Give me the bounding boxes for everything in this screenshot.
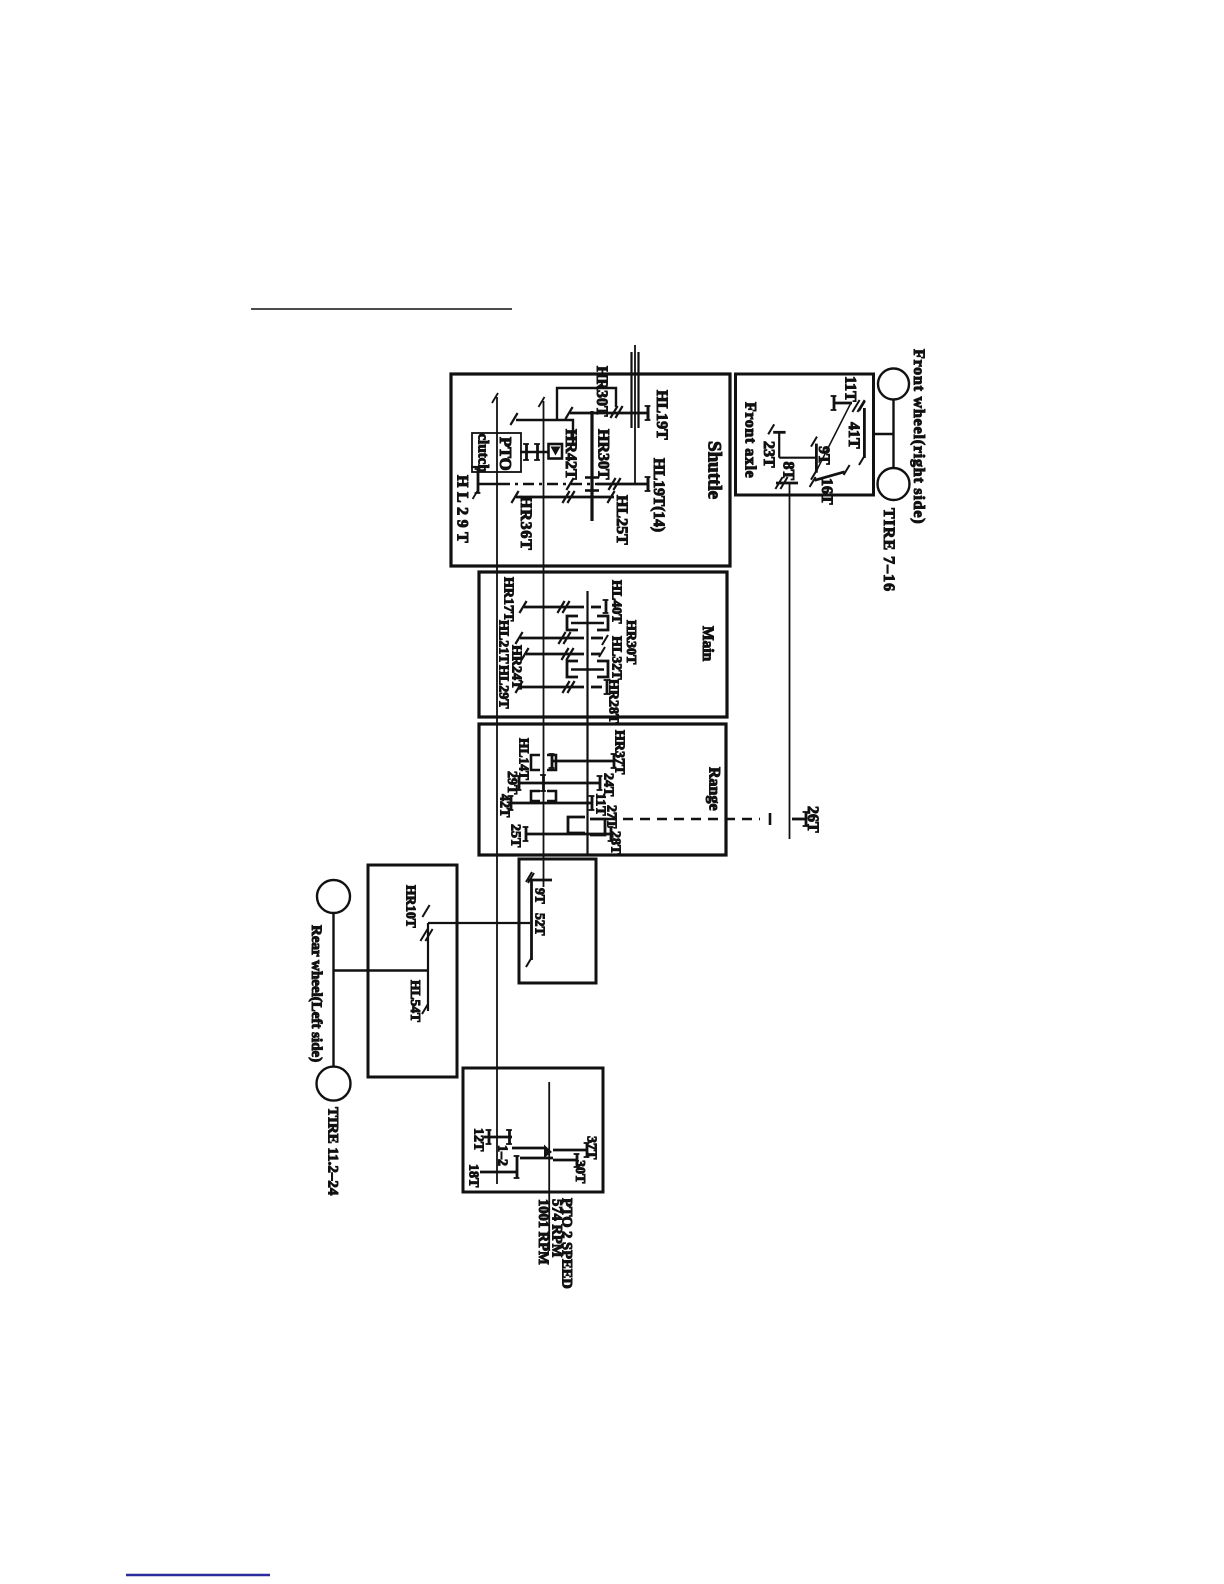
collar pair RC-RE on S4 bbox=[568, 817, 585, 833]
header rule bbox=[251, 308, 512, 310]
svg-text:HR30T: HR30T bbox=[623, 620, 638, 665]
svg-text:12T: 12T bbox=[471, 1128, 486, 1152]
gear row RC 42T/11T bbox=[511, 802, 592, 805]
svg-text:9T: 9T bbox=[533, 888, 548, 904]
shuttle synchro bracket bbox=[516, 420, 573, 444]
shaft S1 (PTO through-shaft) bbox=[496, 397, 498, 1184]
svg-text:52T: 52T bbox=[533, 913, 548, 936]
svg-text:HR30T: HR30T bbox=[593, 366, 610, 417]
synchro hub line bbox=[520, 451, 549, 453]
box front axle bbox=[736, 374, 874, 495]
gear 11T bar bbox=[834, 402, 852, 405]
box Shuttle bbox=[451, 374, 730, 566]
gear row RE 25T/28T bbox=[526, 833, 611, 836]
gear row RB 29T/24T bbox=[519, 782, 600, 785]
box Range bbox=[479, 724, 726, 855]
svg-text:Shuttle: Shuttle bbox=[704, 441, 725, 499]
gear 9T on S2 end bbox=[528, 879, 552, 882]
gear 18T bar bbox=[480, 1171, 517, 1174]
gear 8T with mesh marks bbox=[776, 482, 798, 485]
svg-text:29T: 29T bbox=[504, 771, 519, 795]
bracket HR30T idler link bbox=[557, 388, 616, 420]
gear 41T bbox=[863, 408, 866, 458]
footer rule (navy) bbox=[126, 1574, 270, 1577]
svg-text:Main: Main bbox=[699, 626, 716, 662]
gear 16T bar bbox=[815, 472, 845, 481]
svg-text:18T: 18T bbox=[466, 1164, 481, 1188]
collar on S2 row RA bbox=[531, 755, 540, 770]
mesh tick on dashed line bbox=[769, 813, 772, 825]
svg-text:16T: 16T bbox=[818, 478, 835, 505]
bevel shaft diagonal bbox=[816, 404, 851, 473]
svg-text:HL19T: HL19T bbox=[653, 390, 670, 440]
collar on S2 row RB-RC bbox=[531, 791, 540, 801]
gear 52T bbox=[530, 879, 533, 960]
PTO axis dash-dot line bbox=[478, 483, 499, 486]
gear HL19T(14) end serif bbox=[647, 477, 650, 491]
gear HL29T on PTO axis bbox=[471, 466, 478, 468]
gear 26T bbox=[792, 818, 806, 821]
gear 9T (front) bbox=[815, 444, 818, 473]
collar pair M3-M4 bbox=[567, 661, 578, 677]
PTO clutch box bbox=[472, 433, 521, 472]
front wheel circle (top) bbox=[878, 369, 909, 400]
svg-text:HL40T: HL40T bbox=[609, 580, 624, 624]
svg-text:Front wheel(right side): Front wheel(right side) bbox=[910, 349, 927, 524]
svg-text:37T: 37T bbox=[584, 1136, 599, 1160]
svg-text:26T: 26T bbox=[804, 806, 821, 833]
gear 37T bar bbox=[553, 1149, 587, 1152]
gear row HR36T/HL25T bbox=[516, 496, 614, 499]
front wheel axle bbox=[892, 400, 894, 469]
svg-text:HR30T: HR30T bbox=[595, 429, 612, 480]
rear wheel circle (bottom) bbox=[317, 1067, 351, 1101]
gear mesh marks on idler link bbox=[610, 406, 617, 418]
svg-text:42T: 42T bbox=[497, 794, 512, 818]
svg-text:TIRE 11.2–24: TIRE 11.2–24 bbox=[325, 1107, 341, 1196]
svg-text:25T: 25T bbox=[508, 824, 523, 848]
svg-text:41T: 41T bbox=[845, 422, 862, 449]
gear row M3 HR24T/HL32T bbox=[526, 653, 584, 656]
svg-text:8T: 8T bbox=[780, 462, 797, 481]
gear HR10T mesh marks bbox=[422, 905, 429, 917]
svg-text:TIRE 7–16: TIRE 7–16 bbox=[880, 508, 897, 592]
svg-text:HR10T: HR10T bbox=[404, 885, 419, 928]
svg-text:HL32T: HL32T bbox=[609, 636, 624, 680]
svg-text:28T: 28T bbox=[608, 831, 623, 855]
svg-text:1–2: 1–2 bbox=[495, 1145, 510, 1166]
gear 12T bar bbox=[484, 1136, 512, 1139]
front wheel circle (bottom) bbox=[878, 468, 910, 500]
svg-text:30T: 30T bbox=[572, 1160, 587, 1184]
svg-text:HR36T: HR36T bbox=[517, 496, 534, 551]
gear row M1 HR17T/HL40T bbox=[524, 606, 584, 609]
gear HL19T end serif bbox=[647, 406, 650, 420]
box rear axle bbox=[368, 865, 457, 1077]
svg-text:HR42T: HR42T bbox=[562, 429, 579, 480]
rear wheel axle bbox=[332, 913, 334, 1067]
gear row HL19T / input bbox=[570, 412, 648, 415]
svg-text:HL25T: HL25T bbox=[613, 495, 630, 545]
svg-text:PTO: PTO bbox=[496, 437, 515, 471]
front pinion line bbox=[779, 457, 816, 459]
svg-text:HL54T: HL54T bbox=[408, 980, 423, 1022]
gear row M4 HL29T/HR28T bbox=[520, 686, 584, 689]
svg-text:Rear wheel(Left side): Rear wheel(Left side) bbox=[308, 925, 324, 1062]
gear 30T bar bbox=[553, 1159, 577, 1162]
shaft S3 coupling bars bbox=[585, 476, 599, 479]
gear HL54T serif bbox=[422, 1004, 428, 1014]
box PTO 2 speed bbox=[463, 1068, 603, 1192]
svg-text:Front axle: Front axle bbox=[742, 402, 759, 478]
svg-text:11T: 11T bbox=[842, 376, 859, 402]
svg-text:HR37T: HR37T bbox=[612, 730, 627, 775]
PTO sliding collar bbox=[512, 1147, 545, 1150]
front drive dashed take-off line bbox=[606, 818, 760, 820]
front drive drop shaft bbox=[789, 483, 791, 839]
rear pinion shaft bbox=[427, 923, 429, 1011]
svg-text:Range: Range bbox=[706, 767, 723, 811]
front wheel connector bbox=[873, 433, 894, 435]
svg-text:23T: 23T bbox=[760, 441, 777, 468]
svg-text:HR28T: HR28T bbox=[606, 679, 621, 724]
rear wheel circle (top) bbox=[317, 880, 350, 913]
rear axle line bbox=[334, 969, 428, 971]
engine input triple shaft bbox=[630, 352, 632, 428]
box Main bbox=[479, 572, 727, 717]
svg-text:HL21T: HL21T bbox=[496, 620, 511, 664]
shaft S3 (shuttle countershaft, thick) bbox=[590, 411, 593, 521]
svg-text:1001 RPM: 1001 RPM bbox=[535, 1199, 551, 1265]
svg-text:HL29T: HL29T bbox=[454, 475, 471, 547]
PTO output shaft bbox=[548, 1082, 550, 1251]
drive line to 52T bbox=[428, 922, 530, 924]
collar pair M1-M2 bbox=[567, 616, 578, 630]
svg-text:HL29T: HL29T bbox=[496, 665, 511, 709]
svg-text:HL19T(14): HL19T(14) bbox=[650, 458, 667, 532]
box final reduction bbox=[519, 859, 596, 983]
gear 23T bbox=[778, 432, 780, 457]
synchro hub collar bars bbox=[525, 444, 528, 460]
synchro block with cone bbox=[549, 444, 563, 459]
mesh marks on PTO axis bbox=[566, 478, 573, 490]
gear row RA HR37T bbox=[552, 760, 614, 763]
svg-text:9T: 9T bbox=[815, 446, 832, 465]
gear row M2 HR30T/HL21T bbox=[520, 637, 584, 640]
svg-text:HR17T: HR17T bbox=[501, 577, 516, 622]
shaft S2 (main input shaft) bbox=[543, 401, 545, 887]
shaft S4 (main output shaft) bbox=[586, 591, 588, 855]
